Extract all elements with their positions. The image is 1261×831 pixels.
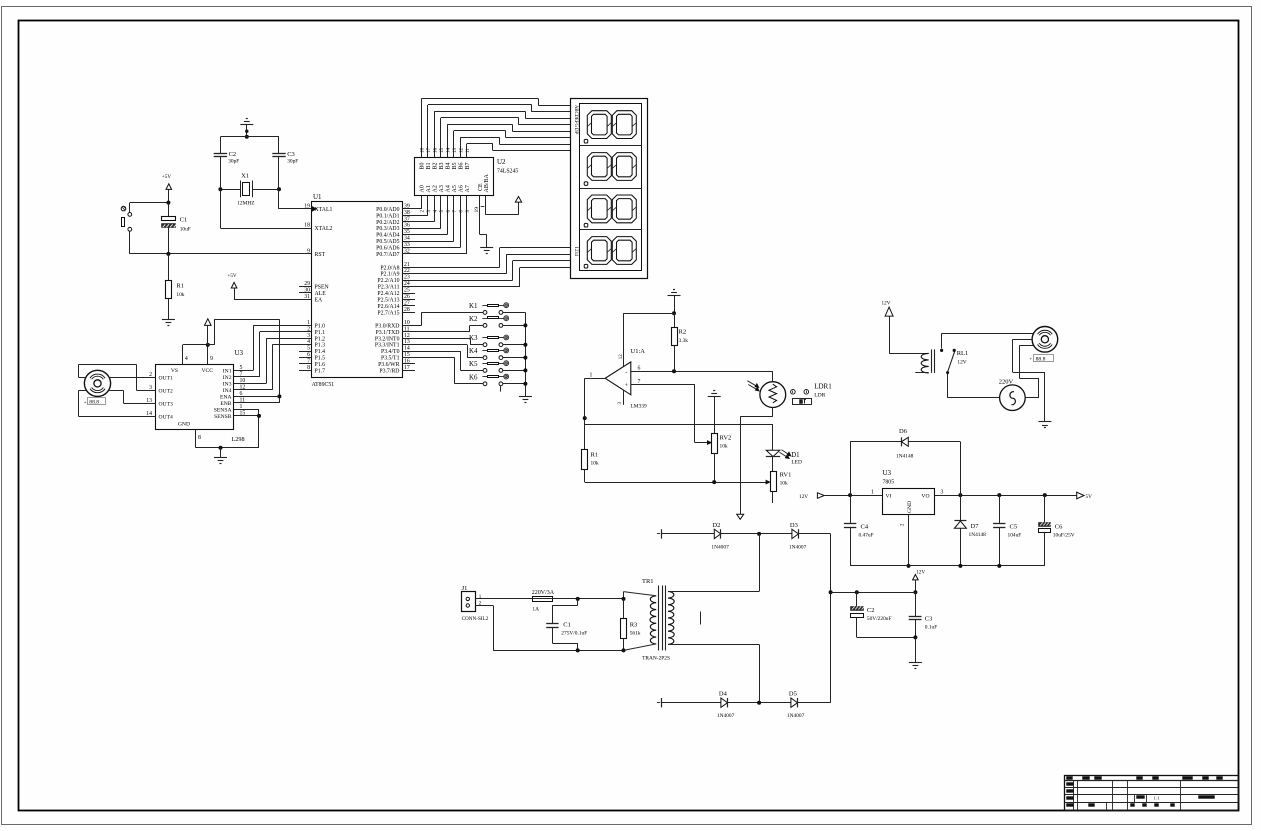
ground (below R1) (162, 320, 175, 326)
U3 pin 2 OUT1 (149, 372, 173, 382)
svg-text:18: 18 (421, 148, 426, 154)
diode D4 1N4007 (717, 691, 735, 720)
svg-text:P1.6: P1.6 (315, 362, 326, 368)
U1 pin 13 P3.3/INT1 (375, 339, 415, 349)
wire C2 branch upper (220, 137, 222, 154)
wire digit select 1 (P2.0) (402, 248, 571, 268)
display digit 4A (587, 237, 611, 265)
U1:A pin 3 stub (618, 390, 624, 405)
svg-text:12V: 12V (957, 360, 966, 366)
svg-text:1N4007: 1N4007 (789, 545, 807, 551)
driver U3 L298 (156, 349, 245, 443)
display digit 1B (612, 111, 636, 139)
capacitor C3 (272, 151, 298, 165)
svg-text:5: 5 (240, 365, 243, 371)
svg-text:U3: U3 (883, 469, 892, 477)
svg-text:0.1uF: 0.1uF (925, 625, 937, 631)
wire segment B0 to display (421, 99, 570, 146)
push button K5 (469, 360, 509, 372)
svg-text:IN3: IN3 (223, 381, 232, 387)
svg-text:12: 12 (619, 354, 624, 360)
svg-text:30: 30 (304, 288, 310, 294)
svg-text:LDR: LDR (814, 392, 825, 398)
svg-text:13: 13 (453, 148, 458, 154)
LED D1 (766, 450, 802, 466)
wire to D2 (661, 533, 714, 535)
svg-text:12V: 12V (799, 494, 808, 500)
svg-text:29: 29 (304, 281, 310, 287)
push button K2 (469, 315, 509, 327)
svg-text:C6: C6 (1055, 524, 1063, 531)
wire AD0 bus U1-U2 (402, 196, 421, 209)
svg-text:P3.4/T0: P3.4/T0 (381, 349, 400, 355)
wire to D4 (661, 702, 721, 704)
svg-text:K2: K2 (469, 315, 478, 323)
terminal bar (AC top) (657, 529, 662, 538)
display dp dot 4 (584, 264, 588, 268)
svg-text:-: - (625, 370, 627, 376)
svg-text:1N4148: 1N4148 (896, 454, 914, 460)
ground (RV2 top) (708, 391, 721, 434)
svg-text:C1: C1 (180, 217, 188, 224)
U1 pin 6 P1.5 (299, 352, 325, 362)
svg-text:10k: 10k (780, 481, 788, 487)
svg-text:P2.3/A11: P2.3/A11 (378, 285, 400, 291)
wire P3.4 to K5 (402, 351, 483, 370)
svg-text:B7: B7 (465, 162, 471, 169)
svg-text:P3.2/INT0: P3.2/INT0 (375, 336, 400, 342)
U3 pin 9 VCC (201, 345, 213, 374)
wire motor lower-right to OUT3 (109, 390, 156, 403)
svg-text:P3.3/INT1: P3.3/INT1 (375, 343, 400, 349)
svg-text:P1.2: P1.2 (315, 336, 326, 342)
svg-text:220V: 220V (999, 379, 1014, 386)
U1 pin 21 P2.0/A8 (380, 262, 415, 272)
U2 pin AB/BA (484, 173, 490, 214)
U1 pin 12 P3.2/INT0 (375, 333, 415, 343)
svg-text:P3.6/WR: P3.6/WR (378, 362, 400, 368)
svg-text:2: 2 (307, 326, 310, 332)
svg-text:R1: R1 (591, 452, 599, 459)
U1 pin 24 P2.3/A11 (378, 281, 415, 291)
svg-text:P1.5: P1.5 (315, 356, 326, 362)
svg-text:15: 15 (240, 410, 246, 416)
svg-text:1234: 1234 (573, 247, 578, 257)
wire AD2 bus U1-U2 (402, 196, 434, 222)
AC source 220V (999, 379, 1025, 411)
svg-text:XTAL2: XTAL2 (315, 226, 333, 232)
svg-text:SENSA: SENSA (214, 407, 232, 413)
svg-text:36: 36 (404, 223, 410, 229)
U1:A pin 6 minus input wire (631, 366, 773, 374)
U1 pin 35 P0.4/AD4 (376, 229, 415, 239)
U2 pin A0 (420, 185, 426, 212)
potentiometer RV2 (10k) (712, 434, 732, 483)
svg-text:1N4007: 1N4007 (711, 545, 729, 551)
svg-text:+: + (84, 400, 87, 406)
svg-text:K5: K5 (469, 360, 478, 368)
U1:A pin 1 output wire (583, 372, 606, 449)
capacitor C2 (214, 151, 240, 165)
push button K3 (469, 334, 509, 346)
svg-text:561k: 561k (630, 631, 641, 637)
svg-text:A4: A4 (446, 185, 452, 192)
svg-text:15: 15 (440, 148, 445, 154)
svg-text:12MHZ: 12MHZ (237, 201, 254, 207)
U1 pin 36 P0.3/AD3 (376, 223, 415, 233)
svg-text:P1.1: P1.1 (315, 330, 326, 336)
svg-text:0.47uF: 0.47uF (859, 533, 874, 539)
svg-text:A1: A1 (426, 185, 432, 192)
svg-text:P3.0/RXD: P3.0/RXD (375, 323, 399, 329)
wire motor upper-right to OUT1 (109, 377, 156, 379)
diode D6 1N4148 bypass (850, 428, 960, 495)
U2 pin B5 (452, 146, 458, 170)
svg-text:A5: A5 (452, 185, 458, 192)
wire EA (234, 299, 312, 301)
svg-text:VCC: VCC (201, 368, 213, 374)
svg-text:B5: B5 (452, 162, 458, 169)
U1 pin 7 P1.6 (299, 358, 325, 368)
title block header marks (1067, 777, 1223, 780)
U3 pin 12 IN4 (223, 384, 247, 394)
svg-text:10k: 10k (591, 461, 599, 467)
svg-text:88.8: 88.8 (89, 400, 99, 406)
U1 pin 11 P3.1/TXD (376, 326, 416, 336)
svg-text:C1: C1 (563, 622, 571, 629)
svg-text:GND: GND (178, 422, 190, 428)
display dp dot 2 (584, 182, 588, 186)
ground (R2 top) (668, 290, 681, 316)
svg-text:8: 8 (198, 435, 201, 441)
svg-text:CONN-SIL2: CONN-SIL2 (462, 616, 489, 622)
svg-text:14: 14 (447, 148, 452, 154)
svg-text:D3: D3 (790, 522, 798, 529)
svg-text:P2.7/A15: P2.7/A15 (377, 310, 399, 316)
wire U3 ground net (196, 409, 261, 449)
svg-text:1:1: 1:1 (1154, 796, 1161, 801)
U1 pin 29 PSEN (299, 281, 329, 291)
svg-text:B0: B0 (420, 162, 426, 169)
svg-text:P0.6/AD6: P0.6/AD6 (376, 245, 399, 251)
U1 pin 28 P2.7/A15 (377, 307, 415, 317)
capacitor C1 mains 275V/0.1uF (546, 599, 587, 651)
wire crystal left (218, 187, 240, 191)
svg-text:+5V: +5V (162, 174, 172, 180)
wire C3 branch upper (278, 137, 280, 154)
wire AD4 bus U1-U2 (402, 196, 447, 235)
svg-text:TRAN-2P2S: TRAN-2P2S (642, 656, 670, 662)
diode D2 1N4007 (711, 522, 729, 551)
7-segment display module frame (571, 99, 648, 279)
push button reset switch (121, 206, 132, 231)
svg-text:1N4148: 1N4148 (969, 532, 987, 538)
power arrow 12V (relay) (882, 301, 929, 354)
power arrow (U2) (515, 197, 521, 203)
U1 pin 17 P3.7/RD (379, 365, 415, 375)
U3 pin 1 SENSA (214, 404, 259, 414)
svg-text:275V/0.1uF: 275V/0.1uF (561, 631, 587, 637)
stray mark (700, 612, 702, 625)
wire C2/C3 bottom (857, 635, 918, 662)
U1 pin 23 P2.2/A10 (377, 275, 415, 285)
wire P1.1 to IN2 (246, 332, 299, 377)
svg-text:LED: LED (791, 459, 802, 465)
wire P1.3 to IN4 (246, 345, 299, 390)
svg-text:IN4: IN4 (223, 388, 232, 394)
svg-text:30pF: 30pF (228, 159, 239, 165)
relay RL1 coil (915, 349, 968, 373)
wire output to LED branch (585, 424, 773, 450)
wire P3.1 to K2 (402, 325, 483, 331)
wire AD1 bus U1-U2 (402, 196, 428, 216)
svg-text:P2.6/A14: P2.6/A14 (377, 304, 399, 310)
U1:A pin 7 plus input wire (631, 379, 712, 445)
U1 pin 30 ALE (299, 288, 326, 298)
U3 pin 4 VS (171, 345, 188, 374)
svg-text:12V: 12V (882, 301, 891, 307)
svg-text:OUT3: OUT3 (159, 401, 173, 407)
U1 pin 34 P0.5/AD5 (376, 236, 415, 246)
svg-text:1N4007: 1N4007 (717, 713, 735, 719)
wire motor M2 center tap to ground (1013, 339, 1045, 422)
svg-text:6: 6 (307, 352, 310, 358)
wire XTAL1 connection (279, 189, 312, 209)
svg-text:9: 9 (307, 248, 310, 254)
svg-text:B6: B6 (458, 162, 464, 169)
wire button common bus (503, 312, 528, 396)
wire P3.2 to K3 (402, 338, 483, 344)
svg-text:11: 11 (466, 148, 471, 153)
U2 pin B0 (420, 146, 426, 170)
display dp dot 1 (584, 139, 588, 143)
U2 pin B1 (426, 146, 432, 170)
svg-text:16: 16 (434, 148, 439, 154)
U1 pin 9 RST (299, 248, 326, 258)
display cell divider 3 (580, 229, 642, 231)
wire AB/BA to power arrow (486, 202, 519, 215)
U2 pin A5 (452, 185, 458, 212)
svg-text:K6: K6 (469, 373, 478, 381)
svg-text:C5: C5 (1010, 524, 1018, 531)
ground (U2 CE) (480, 248, 493, 254)
display digit 4B (612, 237, 636, 265)
svg-text:10uF/25V: 10uF/25V (1053, 533, 1075, 539)
svg-text:17: 17 (427, 148, 432, 154)
wire segment B7 to display (467, 144, 571, 151)
wire D4 to D5 (728, 701, 791, 705)
svg-text:B1: B1 (426, 162, 432, 169)
U1 pin 38 P0.1/AD1 (376, 210, 415, 220)
U3 pin 3 OUT2 (149, 385, 173, 395)
svg-text:R3: R3 (630, 622, 638, 629)
display cell divider 2 (580, 188, 642, 190)
svg-text:RV1: RV1 (780, 471, 792, 478)
wire AD3 bus U1-U2 (402, 196, 441, 229)
U1 pin 26 P2.5/A13 (377, 294, 415, 304)
svg-text:26: 26 (404, 294, 410, 300)
ground (M2) (1038, 422, 1051, 428)
svg-text:1: 1 (307, 320, 310, 326)
svg-text:B4: B4 (446, 162, 452, 169)
svg-text:16: 16 (404, 358, 410, 364)
svg-text:P0.1/AD1: P0.1/AD1 (376, 213, 399, 219)
svg-text:19: 19 (304, 203, 310, 209)
U1 pin 31 EA (299, 294, 323, 304)
buffer U2 74LS245 (415, 158, 519, 196)
svg-text:RST: RST (315, 252, 326, 258)
svg-text:P1.0: P1.0 (315, 323, 326, 329)
U2 pin CE (474, 183, 485, 235)
svg-text:10k: 10k (720, 444, 728, 450)
U3 pin 10 IN3 (223, 378, 247, 388)
wire J1 pin1 to fuse rail (475, 597, 625, 601)
svg-text:7: 7 (240, 371, 243, 377)
svg-text:A0: A0 (420, 185, 426, 192)
svg-text:3: 3 (307, 333, 310, 339)
svg-text:50V/220uF: 50V/220uF (867, 616, 892, 622)
svg-text:C2: C2 (867, 607, 875, 614)
title block row marks (1067, 783, 1215, 807)
capacitor C5 104uF (993, 495, 1021, 566)
U1 pin 16 P3.6/WR (378, 358, 415, 368)
svg-text:TR1: TR1 (642, 578, 654, 585)
svg-text:31: 31 (304, 294, 310, 300)
U2 pin B2 (433, 146, 439, 170)
U1 pin 25 P2.4/A12 (377, 288, 415, 298)
svg-text:OUT1: OUT1 (159, 375, 173, 381)
svg-text:104uF: 104uF (1008, 533, 1022, 539)
wire regulator bottom rail (850, 564, 1045, 568)
svg-text:EA: EA (315, 298, 324, 304)
svg-text:D6: D6 (899, 428, 908, 435)
wire bottom reference rail (585, 480, 770, 484)
svg-text:D5: D5 (789, 691, 797, 698)
wire segment B6 to display (460, 137, 571, 146)
svg-text:D4: D4 (719, 691, 728, 698)
capacitor C3 0.1uF (909, 592, 938, 637)
wire P3.3 to K4 (402, 345, 483, 358)
U3 pin 7 IN2 (223, 371, 247, 381)
svg-text:U2: U2 (497, 158, 506, 166)
svg-text:RL1: RL1 (957, 350, 969, 357)
meter display M2 (+88.8) (1029, 355, 1053, 363)
wire segment B1 to display (428, 105, 571, 146)
wire VO rail to 5V (935, 493, 1077, 497)
U3 7805 GND pin wire (907, 515, 911, 568)
terminal 5V output (1077, 492, 1092, 500)
U1 pin 19 XTAL1 (299, 203, 332, 213)
power arrow (U3 supply) (205, 319, 212, 345)
wire switch top to +5V node (130, 201, 171, 213)
svg-text:R1: R1 (176, 283, 184, 290)
svg-text:+5V: +5V (227, 273, 237, 279)
svg-text:P0.2/AD2: P0.2/AD2 (376, 220, 399, 226)
svg-text:4: 4 (185, 356, 188, 362)
svg-text:3: 3 (941, 490, 944, 496)
push button K1 (469, 302, 509, 314)
svg-text:C3: C3 (925, 616, 933, 623)
svg-text:LM339: LM339 (631, 404, 647, 410)
svg-text:ENA: ENA (220, 394, 232, 400)
ground (U3) (214, 448, 227, 464)
svg-text:23: 23 (404, 275, 410, 281)
svg-text:5V: 5V (1086, 494, 1093, 500)
svg-text:6: 6 (240, 391, 243, 397)
svg-text:U1: U1 (313, 193, 322, 201)
display digit 3A (587, 195, 611, 223)
svg-text:RV2: RV2 (720, 435, 732, 442)
svg-text:P2.4/A12: P2.4/A12 (377, 291, 399, 297)
wire J1 pin2 to bottom rail (475, 606, 625, 653)
U2 pin A4 (446, 185, 452, 212)
meter display M1 (+88.8) (84, 398, 106, 406)
button K6 contact tail (500, 386, 502, 392)
svg-text:K4: K4 (469, 347, 478, 355)
svg-text:B3: B3 (439, 162, 445, 169)
terminal 12V input (799, 493, 883, 500)
svg-text:VI: VI (886, 494, 892, 500)
display dp dot 3 (584, 223, 588, 227)
wire AC source to motor lower (1019, 346, 1039, 398)
svg-text:AB/BA: AB/BA (484, 173, 490, 192)
AC motor M2 (1032, 327, 1058, 353)
display digit 3B (612, 195, 636, 223)
wire crystal top rail (220, 136, 279, 138)
svg-text:AT89C51: AT89C51 (312, 382, 335, 388)
push button K4 (469, 347, 509, 359)
wire primary top lead (624, 592, 657, 599)
U3 pin 5 IN1 (223, 365, 247, 375)
U2 pin B4 (446, 146, 452, 170)
wire CE to ground (480, 235, 487, 248)
wire secondary top lead (668, 534, 760, 592)
svg-text:ENB: ENB (220, 401, 231, 407)
svg-text:P1.4: P1.4 (315, 349, 326, 355)
op-amp U1:A LM339 (605, 348, 647, 410)
wire relay NO to AC source (947, 374, 999, 398)
svg-text:11: 11 (240, 397, 246, 403)
capacitor C2 50V/220uF (851, 592, 892, 637)
svg-text:XTAL1: XTAL1 (315, 207, 333, 213)
push button K6 (469, 373, 509, 385)
svg-text:1: 1 (590, 372, 593, 378)
svg-text:ABCDEFG DP: ABCDEFG DP (573, 105, 578, 134)
svg-text:P2.5/A13: P2.5/A13 (377, 297, 399, 303)
title block table (1064, 776, 1239, 811)
svg-text:VO: VO (921, 494, 929, 500)
U1 pin 15 P3.5/T1 (381, 352, 415, 362)
svg-text:12: 12 (404, 333, 410, 339)
wire D5 output (798, 702, 831, 704)
wire switch bottom to RST rail (130, 231, 169, 254)
svg-text:10uF: 10uF (180, 227, 191, 233)
svg-text:30pF: 30pF (287, 159, 298, 165)
U1 pin 32 P0.7/AD7 (376, 248, 415, 258)
diode D7 1N4148 (954, 495, 986, 566)
svg-text:P3.1/TXD: P3.1/TXD (376, 330, 400, 336)
svg-text:C4: C4 (861, 524, 869, 531)
wire R2 top rail (624, 313, 675, 366)
svg-text:10: 10 (240, 378, 246, 384)
svg-text:P3.7/RD: P3.7/RD (379, 368, 399, 374)
wire P3.5 to K6 (402, 358, 483, 384)
svg-text:10k: 10k (176, 292, 184, 298)
U1 pin 39 P0.0/AD0 (376, 203, 415, 213)
power arrow 12V (bottom rail) (913, 570, 926, 595)
wire VS-VCC junction (183, 343, 210, 347)
wire primary bottom lead (624, 644, 657, 651)
